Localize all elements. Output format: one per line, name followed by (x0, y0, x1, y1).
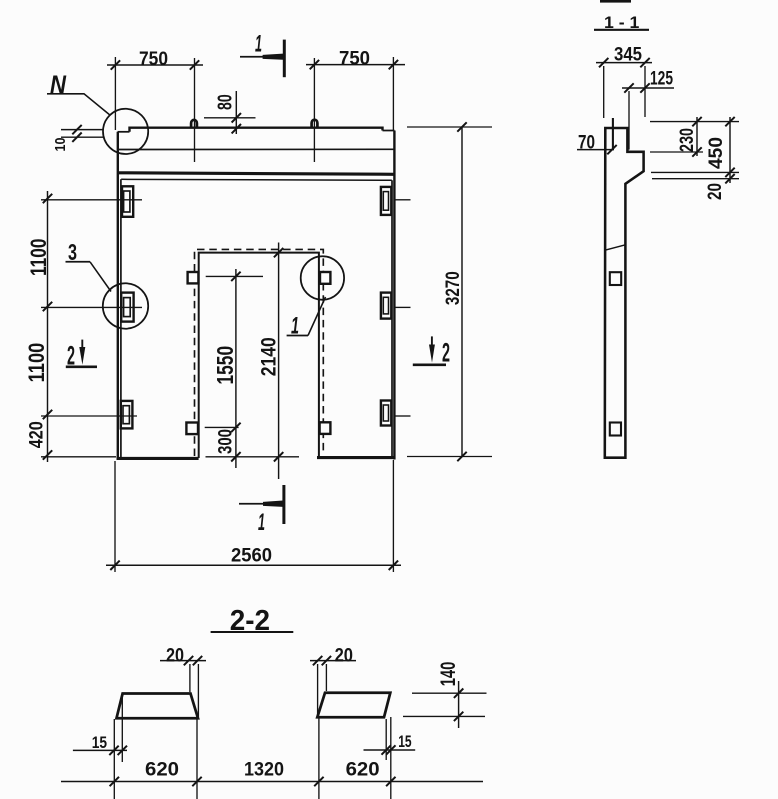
section mark 1 top (240, 40, 284, 78)
svg-text:80: 80 (215, 94, 237, 110)
dim 20 right ext lines (318, 664, 327, 716)
label 1 underline (287, 335, 308, 337)
dim 3270 ext bottom (407, 456, 492, 458)
detail circle 3 (103, 283, 148, 328)
plate axis lines left (41, 200, 142, 457)
left chain ticks (43, 194, 52, 460)
dim 2560 ticks (110, 561, 398, 570)
dim 80 vertical line (235, 91, 237, 134)
dim 140 vertical line (458, 681, 460, 728)
panel left outer edge (117, 132, 119, 460)
svg-text:1100: 1100 (24, 343, 49, 383)
door frame tab upper-right (320, 272, 330, 284)
svg-text:750: 750 (339, 48, 370, 69)
svg-text:1100: 1100 (26, 239, 51, 277)
dim 750 left ext line (114, 57, 116, 130)
hook axis extension line right (313, 58, 315, 162)
dim 345 ticks (599, 58, 650, 67)
beam lower chord line (118, 148, 395, 150)
right leg bottom edge (317, 456, 396, 459)
section title 1-1 underline (594, 29, 649, 31)
dim 20 right ticks (313, 656, 331, 665)
dim 2560 ext lines (115, 460, 393, 572)
embedded plate top-right (381, 187, 391, 215)
opening bottom ext line (206, 456, 300, 458)
panel right outer edge (393, 131, 395, 460)
svg-text:620: 620 (145, 760, 179, 781)
svg-text:N: N (50, 71, 67, 99)
dim 125 ticks (624, 83, 649, 92)
embedded plate bottom-right (381, 401, 391, 426)
dim 230 450 ext lines (650, 122, 739, 179)
dim 15 left line (73, 749, 127, 751)
dim 3270 vertical line (461, 127, 463, 457)
svg-text:1550: 1550 (212, 346, 238, 385)
detail circle N (103, 109, 148, 154)
dim 750 right line (306, 64, 405, 66)
door frame tab lower-right (320, 422, 331, 434)
dim 70 tick (607, 145, 616, 154)
dim 345 ext lines (604, 66, 645, 118)
dim 750 left line (107, 64, 203, 66)
section 2-2 extension lines (114, 695, 391, 799)
embedded plate top-left (122, 186, 133, 217)
svg-text:125: 125 (650, 69, 673, 90)
svg-text:2: 2 (67, 341, 75, 371)
dim 3270 ticks (457, 122, 466, 461)
svg-text:20: 20 (166, 646, 184, 667)
section 1-1 hook edge line (612, 118, 614, 150)
dim 20 left ext lines (190, 664, 199, 717)
section mark 2 right (413, 336, 446, 364)
opening dashed outline (195, 249, 324, 456)
svg-text:70: 70 (578, 133, 595, 154)
dim 1550 vertical line (235, 269, 237, 468)
section 2-2 right slab (317, 693, 390, 718)
svg-text:140: 140 (437, 662, 460, 687)
dim 15 right ticks (382, 745, 396, 754)
dim 10 lines (61, 130, 103, 138)
plate axis stubs right (395, 200, 411, 416)
embedded plate mid-right (381, 293, 391, 319)
label 3 leader (90, 262, 111, 292)
dim 80 ticks (232, 113, 241, 133)
label 3 underline (66, 261, 91, 263)
beam bottom thick line (118, 173, 395, 175)
truncated mark top edge (600, 0, 631, 3)
svg-text:230: 230 (677, 128, 698, 152)
opening solid outline (199, 253, 319, 458)
dim 15 right line (364, 749, 416, 751)
dim 140 ext lines (403, 693, 487, 716)
svg-text:15: 15 (398, 732, 411, 751)
svg-text:300: 300 (216, 429, 237, 454)
dim 230 450 20 ticks (692, 117, 734, 183)
svg-text:20: 20 (335, 646, 353, 667)
dim 2560 line (106, 564, 401, 566)
dim 345 line (596, 62, 652, 64)
dim 140 ticks (454, 689, 463, 722)
bottom dim ticks (110, 777, 396, 786)
lifting hook left (191, 120, 197, 128)
svg-text:450: 450 (705, 137, 727, 169)
left leg bottom edge (117, 457, 199, 460)
svg-text:3: 3 (68, 239, 77, 265)
svg-text:750: 750 (139, 49, 168, 70)
dim 450 line (729, 117, 731, 183)
panel inner recess top line (121, 179, 392, 180)
section mark 2 left (66, 340, 97, 367)
detail circle 1 (301, 256, 344, 299)
embedded plate bottom-left (121, 401, 133, 429)
dim 2140 ticks (274, 248, 283, 462)
embedded plate mid-left (121, 293, 133, 322)
dim 1550 ext top (206, 275, 263, 277)
svg-text:345: 345 (614, 45, 642, 66)
hook axis extension line left (194, 58, 196, 162)
label 1 leader (308, 297, 326, 336)
svg-text:1: 1 (291, 313, 299, 340)
lifting hook right (312, 120, 318, 128)
section 1-1 break line (605, 245, 625, 250)
dim 2140 vertical line (278, 243, 280, 480)
section title 2-2 underline (211, 631, 294, 633)
panel inner recess left line (120, 179, 122, 458)
dim 20 right line (310, 660, 356, 662)
svg-text:15: 15 (92, 733, 107, 752)
dim 1550 ticks (231, 272, 240, 462)
section 1-1 hole upper (610, 272, 621, 285)
dim 750 right ext line (392, 57, 394, 130)
svg-text:1: 1 (255, 31, 262, 58)
svg-text:2560: 2560 (231, 546, 272, 567)
section mark 1 bottom (239, 485, 284, 524)
panel inner recess right line (391, 180, 393, 458)
svg-text:2140: 2140 (257, 337, 280, 376)
svg-text:420: 420 (26, 421, 47, 448)
dim 125 ext line (628, 91, 630, 150)
dim 125 line (622, 87, 674, 89)
svg-text:1320: 1320 (244, 760, 284, 781)
section 1-1 hole lower (610, 423, 621, 436)
dim 15 left ticks (109, 746, 127, 755)
svg-text:10: 10 (52, 138, 69, 152)
panel beam outline (118, 128, 395, 132)
dim 1550 ext bottom (205, 426, 239, 428)
svg-text:620: 620 (346, 760, 380, 781)
dim 20 left line (160, 660, 206, 662)
dim 3270 ext top (407, 126, 492, 128)
section 2-2 left slab (117, 694, 199, 719)
dim 70 line (577, 149, 614, 151)
dim 20 left ticks (184, 656, 202, 665)
dim 80 horizontal line (204, 117, 256, 119)
svg-text:1: 1 (258, 509, 265, 536)
svg-text:2: 2 (442, 338, 450, 368)
door frame tab lower-left (186, 423, 198, 435)
section 1-1 profile outline (605, 128, 644, 458)
svg-text:20: 20 (705, 183, 726, 200)
left dimension chain line (47, 191, 49, 462)
label N leader (47, 94, 111, 116)
dim 10 ticks (72, 125, 81, 142)
svg-text:3270: 3270 (443, 271, 464, 305)
dim 230 line (696, 117, 698, 156)
section 2-2 bottom dimension line (61, 781, 483, 783)
door frame tab upper-left (188, 272, 199, 283)
dim 750 right ticks (310, 60, 398, 69)
dim 750 left ticks (111, 60, 199, 69)
